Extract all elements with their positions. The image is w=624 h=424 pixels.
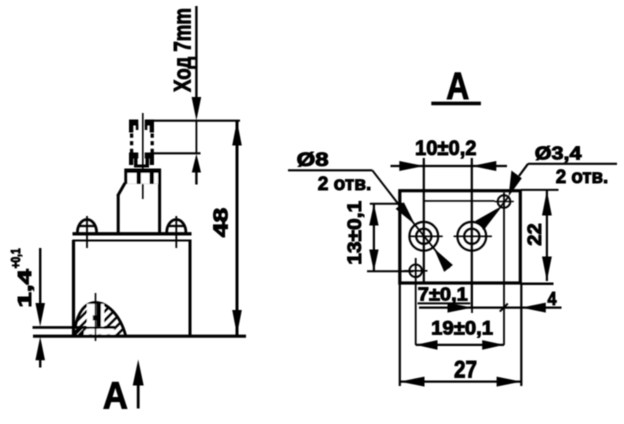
- centerline plunger: [142, 113, 144, 199]
- hole2 Ø8: [457, 222, 486, 251]
- hole1 Ø8: [409, 222, 438, 251]
- screw right: [167, 220, 186, 233]
- svg-text:Ø3,4: Ø3,4: [535, 143, 583, 164]
- svg-text:Ход 7mm: Ход 7mm: [170, 8, 197, 92]
- flange: [73, 232, 192, 235]
- svg-text:10±0,2: 10±0,2: [415, 137, 477, 160]
- body box: [72, 240, 75, 337]
- dim 1,4+0,1: [39, 248, 41, 306]
- plunger head upper (released, dashed position): [129, 120, 154, 133]
- svg-text:Ø8: Ø8: [297, 150, 329, 171]
- body neck outline: [118, 183, 125, 196]
- screw left: [77, 220, 96, 233]
- plunger head lower (pressed position): [129, 153, 154, 168]
- dim 48: [236, 121, 239, 336]
- svg-text:1,4: 1,4: [15, 269, 35, 307]
- svg-text:27: 27: [454, 357, 477, 384]
- dashed plunger sides: [130, 134, 133, 153]
- svg-text:2 отв.: 2 отв.: [318, 173, 372, 195]
- white gap strip 1,4: [84, 329, 114, 334]
- corner hatch: [75, 328, 87, 335]
- ribbed guide band: [124, 169, 161, 184]
- small hole top-right Ø3,4: [498, 195, 511, 208]
- svg-text:19±0,1: 19±0,1: [431, 318, 493, 340]
- boot inner channel: [87, 304, 104, 327]
- small hole bottom-left Ø3,4: [409, 265, 422, 278]
- svg-text:13±0,1: 13±0,1: [344, 201, 366, 265]
- svg-text:22: 22: [525, 223, 546, 246]
- dim 22: [521, 189, 559, 191]
- rubber boot dome: [75, 302, 126, 336]
- svg-text:2 отв.: 2 отв.: [556, 166, 609, 188]
- centerline hole1-smallhole: [424, 200, 495, 202]
- base line 1.4: [33, 326, 115, 329]
- boot centerline: [95, 293, 97, 341]
- plate: [400, 191, 521, 283]
- bottom edge: [33, 335, 246, 338]
- svg-text:7±0,1: 7±0,1: [418, 284, 468, 305]
- svg-text:А: А: [103, 375, 128, 417]
- svg-text:+0,1: +0,1: [9, 248, 23, 268]
- svg-text:4: 4: [548, 289, 557, 309]
- svg-text:48: 48: [211, 208, 233, 238]
